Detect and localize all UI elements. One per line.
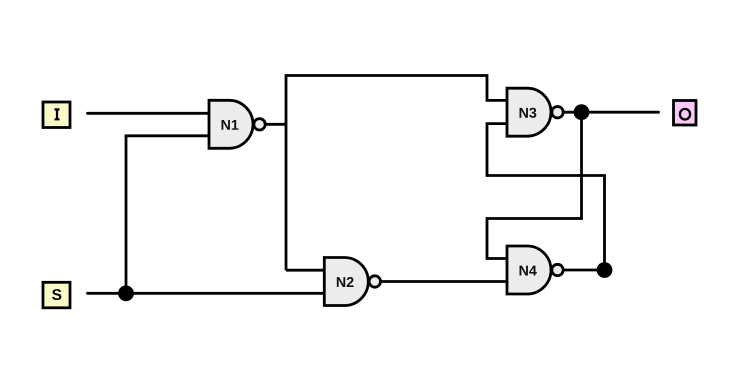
wire I to N1 top input (88, 112, 210, 115)
NAND gate N4 (507, 246, 563, 294)
NAND gate N2 (324, 258, 380, 306)
input port I (43, 102, 70, 128)
output port O (674, 101, 697, 126)
wire N4 output junction up to N3 bottom input (487, 124, 605, 270)
wire N4 output to junction (564, 269, 605, 272)
wire bus: N1 output up over top to N3 top input (286, 76, 507, 271)
wire S-junction up to N1 bottom input (126, 136, 209, 293)
NAND gate N3 (507, 88, 563, 136)
wire N1 output to bus (265, 123, 286, 126)
wire bus to N2 top input (286, 269, 324, 272)
wire N2 output to N4 bottom input (381, 280, 507, 283)
wire N3 output junction down to N4 top input (487, 112, 582, 258)
input port S (43, 282, 70, 308)
node junction dot at N4 output (597, 262, 613, 278)
node junction dot at N3 output (574, 104, 590, 120)
node junction dot at S wire (118, 285, 134, 301)
wire N3 output to O (564, 111, 659, 114)
wire S to N2 bottom input (88, 292, 325, 295)
NAND gate N1 (209, 100, 265, 148)
